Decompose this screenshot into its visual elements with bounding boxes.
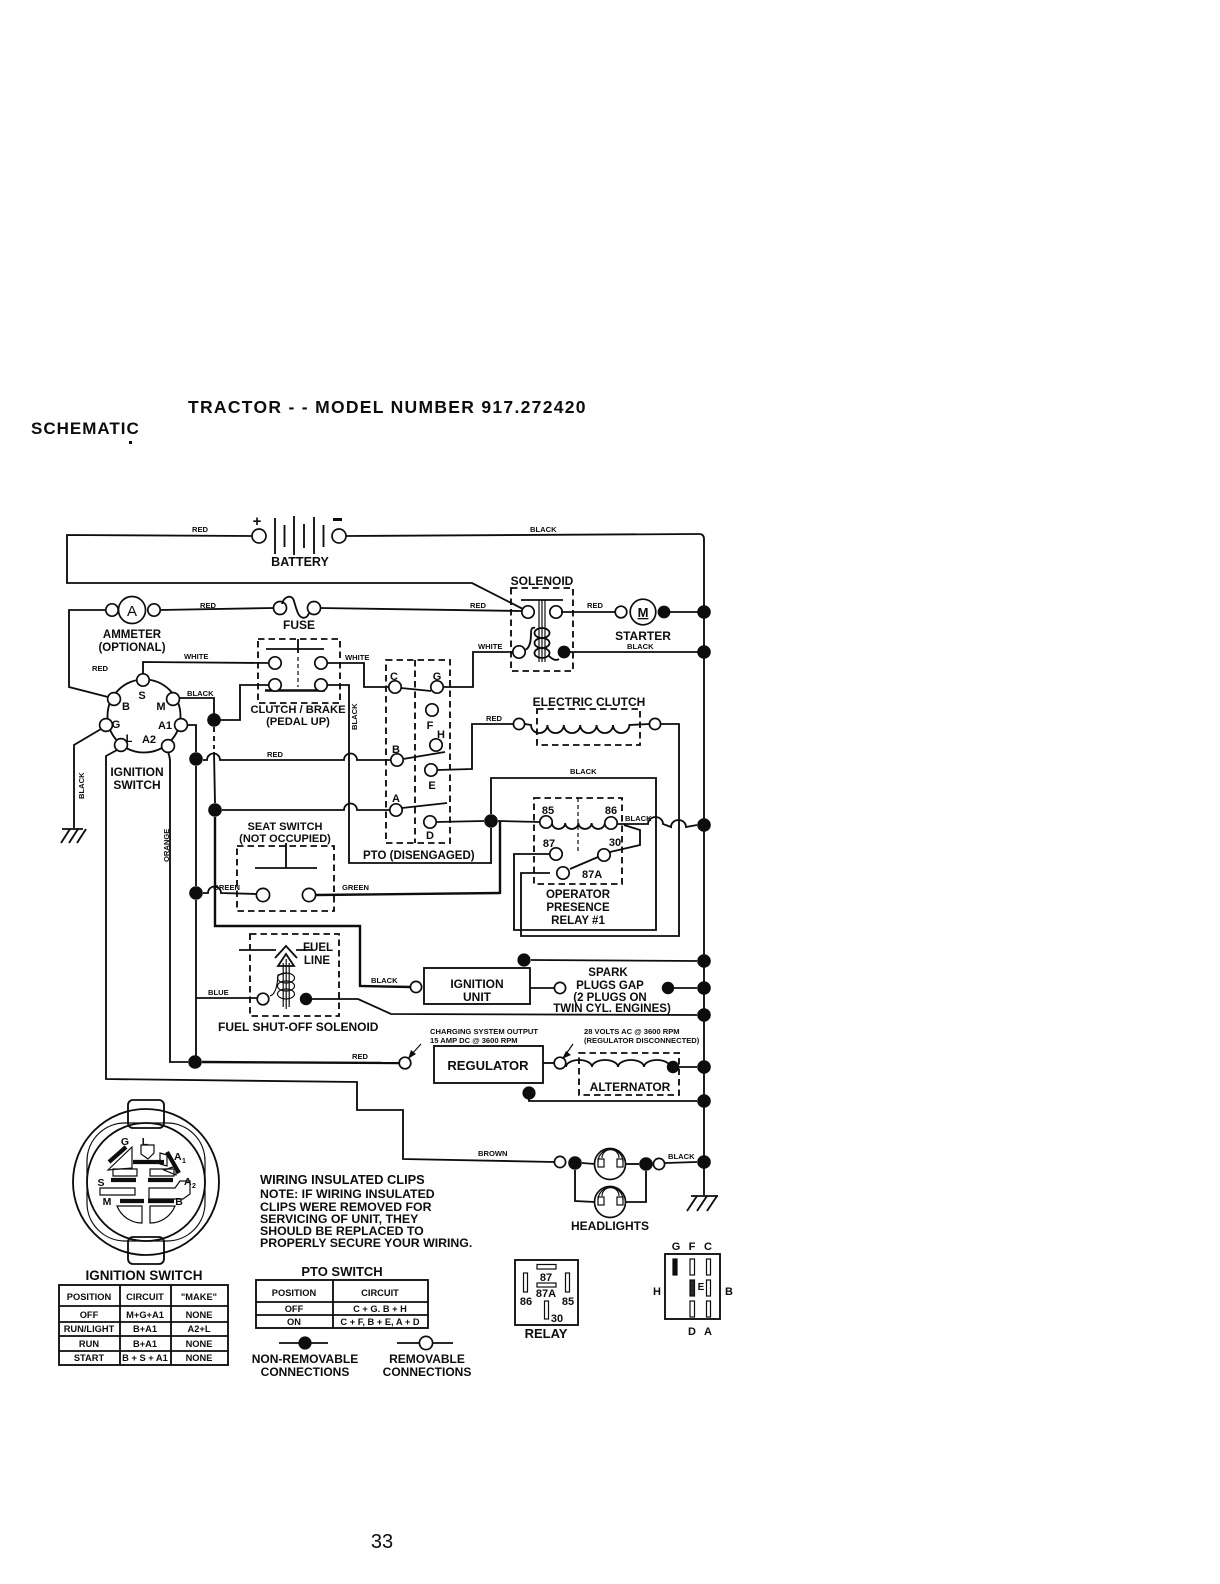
wire junction to PTO A bbox=[222, 804, 390, 811]
svg-text:REMOVABLE: REMOVABLE bbox=[389, 1352, 465, 1366]
svg-text:UNIT: UNIT bbox=[463, 990, 492, 1004]
wire junction to clutch-brake lower left bbox=[214, 685, 269, 720]
svg-text:FUSE: FUSE bbox=[283, 618, 315, 632]
svg-text:(OPTIONAL): (OPTIONAL) bbox=[98, 642, 165, 654]
junction relay 85 bbox=[484, 814, 498, 828]
wire regulator to alternator circle bbox=[543, 1062, 554, 1064]
svg-text:E: E bbox=[698, 1282, 705, 1293]
svg-text:A1: A1 bbox=[158, 720, 172, 732]
svg-text:RELAY: RELAY bbox=[525, 1326, 568, 1341]
svg-text:B: B bbox=[392, 744, 400, 756]
svg-text:PRESENCE: PRESENCE bbox=[546, 902, 610, 914]
svg-text:H: H bbox=[653, 1286, 661, 1298]
svg-text:CONNECTIONS: CONNECTIONS bbox=[261, 1365, 350, 1379]
svg-text:BLACK: BLACK bbox=[570, 767, 597, 776]
wire starter to rail bbox=[670, 611, 704, 613]
svg-text:HEADLIGHTS: HEADLIGHTS bbox=[571, 1219, 649, 1233]
svg-text:BLUE: BLUE bbox=[208, 988, 229, 997]
regulator bbox=[399, 1046, 566, 1100]
svg-text:E: E bbox=[428, 780, 435, 792]
wire junction down to seat/ignition-unit route bbox=[215, 817, 411, 987]
junction rail regulator ground bbox=[697, 1094, 711, 1108]
junction rail fuel return bbox=[697, 1008, 711, 1022]
svg-text:TWIN CYL. ENGINES): TWIN CYL. ENGINES) bbox=[553, 1003, 671, 1015]
wire G to ground (BLACK) bbox=[74, 729, 101, 828]
wire regulator red feed bbox=[202, 1062, 399, 1063]
fuse bbox=[274, 597, 321, 632]
clutch brake switch bbox=[250, 639, 346, 728]
svg-text:ELECTRIC CLUTCH: ELECTRIC CLUTCH bbox=[533, 695, 646, 709]
svg-text:RELAY #1: RELAY #1 bbox=[551, 915, 605, 927]
svg-text:ORANGE: ORANGE bbox=[162, 829, 171, 862]
alternator note bbox=[562, 1027, 700, 1059]
svg-text:WHITE: WHITE bbox=[345, 653, 369, 662]
wire fuse to solenoid (RED) bbox=[320, 608, 522, 611]
relay pinout bbox=[515, 1260, 578, 1341]
svg-text:28 VOLTS AC @ 3600 RPM: 28 VOLTS AC @ 3600 RPM bbox=[584, 1027, 680, 1036]
svg-text:IGNITION SWITCH: IGNITION SWITCH bbox=[86, 1268, 203, 1283]
svg-text:85: 85 bbox=[542, 805, 554, 817]
svg-text:RED: RED bbox=[267, 750, 284, 759]
svg-text:ON: ON bbox=[287, 1317, 301, 1327]
svg-text:H: H bbox=[437, 729, 445, 741]
svg-text:SPARK: SPARK bbox=[588, 967, 628, 979]
svg-text:A: A bbox=[127, 603, 137, 620]
svg-text:G: G bbox=[121, 1136, 129, 1148]
wire battery negative (BLACK) to right rail and rail down to ground bbox=[346, 534, 704, 1195]
spark plugs gap bbox=[553, 967, 674, 1015]
junction rail headlights bbox=[697, 1155, 711, 1169]
svg-text:BLACK: BLACK bbox=[350, 703, 359, 730]
svg-text:SCHEMATIC: SCHEMATIC bbox=[31, 419, 140, 438]
svg-text:L: L bbox=[126, 733, 133, 745]
svg-text:C + G. B + H: C + G. B + H bbox=[353, 1304, 407, 1314]
svg-text:85: 85 bbox=[562, 1296, 574, 1308]
wire blue tee to fuel solenoid bbox=[196, 997, 257, 999]
svg-text:87: 87 bbox=[540, 1272, 552, 1284]
svg-text:(REGULATOR DISCONNECTED): (REGULATOR DISCONNECTED) bbox=[584, 1036, 700, 1045]
svg-text:BLACK: BLACK bbox=[627, 642, 654, 651]
svg-text:D: D bbox=[426, 830, 434, 842]
svg-text:RED: RED bbox=[200, 601, 217, 610]
svg-text:NONE: NONE bbox=[186, 1310, 213, 1320]
svg-text:87A: 87A bbox=[536, 1288, 556, 1300]
svg-text:A: A bbox=[184, 1176, 192, 1188]
svg-text:A2: A2 bbox=[142, 734, 156, 746]
svg-text:+: + bbox=[253, 513, 262, 530]
svg-text:C + F, B + E, A + D: C + F, B + E, A + D bbox=[340, 1317, 419, 1327]
ignition unit bbox=[410, 953, 565, 1004]
svg-text:SOLENOID: SOLENOID bbox=[511, 574, 574, 588]
wire white solenoid feed from PTO G bbox=[443, 652, 513, 687]
connector pinout bbox=[653, 1241, 733, 1338]
svg-text:REGULATOR: REGULATOR bbox=[447, 1058, 529, 1073]
junction rail alternator bbox=[697, 1060, 711, 1074]
svg-text:15 AMP DC @ 3600 RPM: 15 AMP DC @ 3600 RPM bbox=[430, 1036, 518, 1045]
wire fuel solenoid return to rail bbox=[312, 999, 697, 1015]
svg-text:30: 30 bbox=[551, 1313, 563, 1325]
svg-text:WIRING INSULATED CLIPS: WIRING INSULATED CLIPS bbox=[260, 1172, 425, 1187]
PTO arm C-G bbox=[401, 688, 431, 691]
wire spark plug to rail bbox=[674, 987, 697, 989]
svg-text:"MAKE": "MAKE" bbox=[181, 1292, 217, 1302]
svg-text:LINE: LINE bbox=[304, 955, 331, 967]
svg-text:B: B bbox=[175, 1196, 183, 1208]
svg-text:CIRCUIT: CIRCUIT bbox=[126, 1292, 164, 1302]
svg-text:C: C bbox=[390, 671, 398, 683]
svg-text:86: 86 bbox=[520, 1296, 532, 1308]
wire A1 line down to regulator row bbox=[195, 900, 197, 1062]
svg-text:G: G bbox=[112, 719, 121, 731]
seat switch bbox=[237, 821, 334, 911]
svg-text:M+G+A1: M+G+A1 bbox=[126, 1310, 164, 1320]
svg-text:NONE: NONE bbox=[186, 1353, 213, 1363]
svg-text:CIRCUIT: CIRCUIT bbox=[361, 1288, 399, 1298]
wire junction to 85 bbox=[498, 821, 540, 822]
wire clutch-brake black down to relay 87 route bbox=[327, 685, 492, 863]
svg-text:PTO (DISENGAGED): PTO (DISENGAGED) bbox=[363, 850, 475, 862]
pto switch table bbox=[256, 1264, 428, 1328]
svg-text:M: M bbox=[103, 1196, 112, 1208]
wire PTO E to electric clutch (RED) bbox=[437, 724, 513, 770]
svg-text:POSITION: POSITION bbox=[67, 1292, 112, 1302]
ground ignition switch bbox=[61, 829, 86, 843]
wire solenoid black to rail bbox=[570, 651, 704, 653]
svg-text:BLACK: BLACK bbox=[77, 772, 86, 799]
legend non-removable bbox=[252, 1336, 358, 1379]
PTO arm A open bbox=[402, 803, 447, 808]
ground rail bbox=[687, 1196, 718, 1211]
svg-text:NONE: NONE bbox=[186, 1339, 213, 1349]
svg-text:NON-REMOVABLE: NON-REMOVABLE bbox=[252, 1352, 358, 1366]
svg-text:RUN: RUN bbox=[79, 1339, 99, 1349]
svg-text:S: S bbox=[97, 1177, 104, 1189]
svg-text:ALTERNATOR: ALTERNATOR bbox=[590, 1080, 671, 1094]
svg-text:B + S + A1: B + S + A1 bbox=[122, 1353, 168, 1363]
svg-text:A: A bbox=[174, 1151, 182, 1163]
solenoid bbox=[511, 574, 574, 671]
wire regulator ground to rail bbox=[529, 1097, 697, 1101]
svg-text:BLACK: BLACK bbox=[371, 976, 398, 985]
svg-text:87A: 87A bbox=[582, 869, 602, 881]
svg-text:RED: RED bbox=[192, 525, 209, 534]
wire electric clutch return down and relay text box bbox=[521, 724, 679, 936]
junction rail ignition unit bbox=[697, 954, 711, 968]
svg-text:A: A bbox=[392, 793, 400, 805]
wire green seat switch right to relay bbox=[316, 893, 500, 895]
legend removable bbox=[383, 1336, 472, 1379]
fuel line and shut-off solenoid bbox=[218, 934, 379, 1034]
svg-text:BATTERY: BATTERY bbox=[271, 555, 329, 569]
svg-text:RED: RED bbox=[587, 601, 604, 610]
svg-text:L: L bbox=[142, 1136, 149, 1148]
svg-text:AMMETER: AMMETER bbox=[103, 629, 162, 641]
wire A1 line down to green row bbox=[195, 766, 197, 886]
ammeter A bbox=[98, 597, 165, 655]
svg-text:PLUGS GAP: PLUGS GAP bbox=[576, 980, 644, 992]
junction red row bbox=[189, 752, 203, 766]
svg-text:G: G bbox=[433, 671, 442, 683]
svg-text:RUN/LIGHT: RUN/LIGHT bbox=[64, 1324, 115, 1334]
wire 86 to rail (BLACK) with humps bbox=[617, 817, 697, 827]
svg-text:SEAT SWITCH: SEAT SWITCH bbox=[248, 821, 323, 833]
svg-text:S: S bbox=[138, 690, 145, 702]
svg-text:RED: RED bbox=[352, 1052, 369, 1061]
svg-text:A: A bbox=[704, 1326, 712, 1338]
svg-text:33: 33 bbox=[371, 1531, 393, 1553]
svg-text:30: 30 bbox=[609, 837, 621, 849]
wire green seat switch left bbox=[203, 887, 256, 895]
charging note bbox=[408, 1027, 538, 1059]
ignition switch table bbox=[59, 1285, 228, 1365]
svg-text:B+A1: B+A1 bbox=[133, 1339, 157, 1349]
svg-text:B: B bbox=[725, 1286, 733, 1298]
operator presence relay bbox=[534, 798, 622, 927]
junction regulator row bbox=[188, 1055, 202, 1069]
svg-text:TRACTOR - - MODEL NUMBER 917.: TRACTOR - - MODEL NUMBER 917.272420 bbox=[188, 397, 587, 417]
svg-text:C: C bbox=[704, 1241, 712, 1253]
svg-text:GREEN: GREEN bbox=[213, 883, 240, 892]
svg-text:CHARGING SYSTEM OUTPUT: CHARGING SYSTEM OUTPUT bbox=[430, 1027, 538, 1036]
wire ammeter to fuse (RED) bbox=[160, 608, 274, 610]
svg-text:F: F bbox=[427, 720, 434, 732]
wire headlights to rail (BLACK) bbox=[665, 1162, 697, 1163]
wire 30 branch to 86 wire bbox=[610, 825, 640, 852]
svg-text:IGNITION: IGNITION bbox=[110, 765, 163, 779]
svg-text:(PEDAL UP): (PEDAL UP) bbox=[266, 716, 330, 728]
svg-text:OFF: OFF bbox=[285, 1304, 304, 1314]
svg-text:G: G bbox=[672, 1241, 681, 1253]
ignition switch key plug bbox=[73, 1100, 219, 1283]
wire A2 orange down bbox=[168, 752, 188, 1062]
svg-text:RED: RED bbox=[470, 601, 487, 610]
junction PTO A feed bbox=[208, 803, 222, 817]
junction rail starter bbox=[697, 605, 711, 619]
wire ignition unit feed to rail bbox=[531, 960, 697, 961]
svg-text:B: B bbox=[122, 701, 130, 713]
svg-text:87: 87 bbox=[543, 838, 555, 850]
svg-text:IGNITION: IGNITION bbox=[450, 977, 503, 991]
wire green riser seat to 85 node bbox=[499, 821, 501, 894]
wiring insulated clips note bbox=[260, 1172, 472, 1250]
svg-text:CONNECTIONS: CONNECTIONS bbox=[383, 1365, 472, 1379]
wire PTO D to relay junction bbox=[436, 821, 484, 822]
wire battery positive (RED) to solenoid bbox=[67, 535, 523, 609]
svg-text:1: 1 bbox=[182, 1158, 186, 1165]
electric clutch bbox=[513, 695, 660, 745]
junction rail solenoid black bbox=[697, 645, 711, 659]
operator presence relay outer loop wire bbox=[491, 778, 656, 930]
wire solenoid to starter (RED) bbox=[561, 611, 615, 613]
junction M wire bbox=[207, 713, 221, 727]
starter M bbox=[615, 599, 671, 643]
wire A1 down bbox=[188, 725, 196, 752]
wire S white riser to clutch-brake bbox=[143, 662, 269, 674]
wire M black to junction bbox=[179, 698, 214, 714]
svg-text:WHITE: WHITE bbox=[184, 652, 208, 661]
wire relay junction down to clutch black route bbox=[490, 828, 492, 863]
svg-text:STARTER: STARTER bbox=[615, 629, 671, 643]
svg-text:FUEL: FUEL bbox=[303, 942, 333, 954]
svg-text:M: M bbox=[156, 701, 165, 713]
svg-text:B+A1: B+A1 bbox=[133, 1324, 157, 1334]
svg-text:M: M bbox=[638, 605, 649, 620]
svg-text:BLACK: BLACK bbox=[668, 1152, 695, 1161]
svg-text:OPERATOR: OPERATOR bbox=[546, 889, 611, 901]
svg-text:2: 2 bbox=[192, 1183, 196, 1190]
ignition switch rotary bbox=[100, 674, 188, 792]
wire L to lights staircase and brown headlight feed bbox=[106, 750, 554, 1162]
svg-text:WHITE: WHITE bbox=[478, 642, 502, 651]
svg-text:OFF: OFF bbox=[80, 1310, 99, 1320]
svg-text:RED: RED bbox=[92, 664, 109, 673]
svg-text:BLACK: BLACK bbox=[625, 814, 652, 823]
relay arm 30 to 87A bbox=[570, 857, 598, 869]
PTO arm B-H bbox=[403, 752, 445, 759]
svg-text:START: START bbox=[74, 1353, 105, 1363]
svg-text:F: F bbox=[689, 1241, 696, 1253]
svg-text:A2+L: A2+L bbox=[188, 1324, 211, 1334]
svg-text:PTO SWITCH: PTO SWITCH bbox=[301, 1264, 382, 1279]
svg-text:D: D bbox=[688, 1326, 696, 1338]
svg-text:BLACK: BLACK bbox=[530, 525, 557, 534]
junction rail spark bbox=[697, 981, 711, 995]
wire red ignition to PTO B bbox=[203, 754, 391, 761]
junction rail 86 bbox=[697, 818, 711, 832]
wire ammeter to ignition switch B bbox=[69, 610, 108, 697]
PTO switch bbox=[363, 660, 475, 862]
wire alternator to rail bbox=[679, 1066, 697, 1068]
svg-text:86: 86 bbox=[605, 805, 617, 817]
svg-text:GREEN: GREEN bbox=[342, 883, 369, 892]
battery bbox=[252, 513, 346, 569]
svg-text:RED: RED bbox=[486, 714, 503, 723]
alternator bbox=[566, 1053, 679, 1095]
svg-text:POSITION: POSITION bbox=[272, 1288, 317, 1298]
svg-text:SWITCH: SWITCH bbox=[113, 778, 160, 792]
headlights bbox=[554, 1149, 664, 1234]
wire clutch-brake to PTO C (WHITE) bbox=[327, 663, 389, 687]
svg-text:FUEL SHUT-OFF SOLENOID: FUEL SHUT-OFF SOLENOID bbox=[218, 1020, 379, 1034]
junction green row bbox=[189, 886, 203, 900]
svg-text:BROWN: BROWN bbox=[478, 1149, 508, 1158]
svg-text:BLACK: BLACK bbox=[187, 689, 214, 698]
svg-text:CLUTCH / BRAKE: CLUTCH / BRAKE bbox=[250, 704, 346, 716]
svg-text:PROPERLY SECURE YOUR WIRING.: PROPERLY SECURE YOUR WIRING. bbox=[260, 1236, 472, 1250]
svg-text:NOTE: IF WIRING INSULATED: NOTE: IF WIRING INSULATED bbox=[260, 1187, 435, 1201]
wire M junction down (dashed then solid) bbox=[213, 727, 215, 749]
